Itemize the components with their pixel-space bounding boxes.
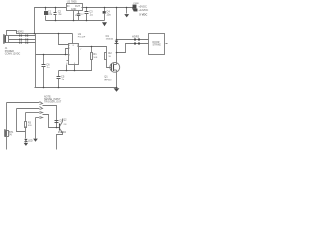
wire relay lower bbox=[117, 44, 149, 53]
wire IC bottom pin a bbox=[66, 65, 68, 71]
junction (116.5,39.5) bbox=[116, 39, 118, 41]
svg-text:5 VDC: 5 VDC bbox=[139, 12, 147, 16]
ground arrow bus end bbox=[102, 22, 107, 26]
wire battery bottom bbox=[6, 136, 8, 150]
wire filter line 1 bbox=[9, 35, 36, 37]
junction (116.5,7.5) bbox=[116, 7, 118, 9]
svg-text:2N3904: 2N3904 bbox=[58, 132, 67, 134]
wire filter line 2 bbox=[9, 39, 36, 41]
capacitor C4 bbox=[103, 8, 106, 21]
svg-text:.1u: .1u bbox=[46, 67, 50, 69]
junction (91.5,46.5) bbox=[91, 46, 93, 48]
svg-text:1: 1 bbox=[69, 45, 71, 47]
wire R1 bottom to pin bus bbox=[59, 60, 92, 71]
svg-text:IN: IN bbox=[67, 5, 70, 8]
svg-text:C7: C7 bbox=[81, 14, 85, 16]
svg-text:HDR3: HDR3 bbox=[132, 35, 140, 39]
regulator ground pin bbox=[73, 11, 75, 21]
resistor R2 bbox=[105, 53, 107, 60]
svg-text:STRIKE: STRIKE bbox=[153, 45, 162, 47]
relay box K1 bbox=[149, 34, 165, 55]
svg-text:CONN 12VDC: CONN 12VDC bbox=[5, 53, 21, 56]
junction (55.5,7.5) bbox=[55, 7, 57, 9]
wire R3 to LED bbox=[25, 127, 27, 139]
arrow glyph A3 bbox=[40, 112, 43, 114]
svg-text:GND: GND bbox=[71, 8, 77, 11]
svg-text:.1u: .1u bbox=[61, 79, 65, 81]
junction (34.5,33.5) bbox=[34, 33, 36, 35]
junction (45.5,7.5) bbox=[45, 7, 47, 9]
svg-text:.1u: .1u bbox=[89, 12, 93, 16]
IC U1 box bbox=[69, 44, 79, 65]
svg-text:2: 2 bbox=[69, 48, 71, 50]
junction (58.5,33.5) bbox=[58, 33, 60, 35]
wire W1 continuation bbox=[43, 106, 57, 128]
junction dots bbox=[34, 7, 128, 129]
wire IC top pin bbox=[72, 34, 74, 44]
wire W3 continuation right bbox=[43, 115, 60, 128]
svg-text:4: 4 bbox=[66, 63, 68, 65]
connector pins on relay wires bbox=[134, 39, 140, 45]
svg-text:Q1: Q1 bbox=[104, 75, 108, 79]
svg-text:R1: R1 bbox=[93, 52, 97, 56]
connector J2 pins row3 bbox=[19, 42, 20, 44]
svg-text:3: 3 bbox=[69, 55, 71, 57]
capacitor C7 under regulator bbox=[77, 11, 81, 21]
junction (86.5,20.5) bbox=[86, 20, 88, 22]
wire IC bottom pin b bbox=[74, 65, 76, 71]
led D2 bbox=[24, 139, 27, 142]
wire W4 to ground bbox=[35, 118, 37, 139]
junction (86.5,7.5) bbox=[86, 7, 88, 9]
wire relay upper bbox=[117, 39, 149, 41]
junction (43.5,54.5) bbox=[43, 54, 45, 56]
label IC pin numbers bbox=[66, 45, 82, 65]
battery BT1 bbox=[5, 130, 9, 137]
resistor R3 bbox=[25, 122, 27, 128]
svg-text:C6: C6 bbox=[46, 62, 50, 66]
junction (126.5,7.5) bbox=[126, 7, 128, 9]
wire left drop to battery bbox=[6, 103, 8, 131]
junction (73.5,20.5) bbox=[73, 20, 75, 22]
wire IC left stub pin3 bbox=[67, 60, 69, 62]
svg-text:1K: 1K bbox=[108, 56, 111, 58]
svg-text:HDR2: HDR2 bbox=[17, 30, 25, 34]
wire VDD branch to IC pin1 bbox=[59, 34, 69, 45]
svg-text:C5: C5 bbox=[61, 74, 65, 78]
wire emitter to ground run bbox=[57, 133, 63, 150]
svg-text:330: 330 bbox=[28, 125, 32, 127]
svg-text:10K: 10K bbox=[93, 57, 97, 59]
capacitor C3 bbox=[85, 8, 89, 21]
connector J1 bbox=[4, 35, 9, 44]
regulator U2 box bbox=[67, 4, 83, 11]
junction (55.5,20.5) bbox=[55, 20, 57, 22]
wire main drain vertical bbox=[116, 8, 118, 63]
svg-text:PIC12F: PIC12F bbox=[78, 37, 86, 39]
junction (43.5,87.5) bbox=[43, 87, 45, 89]
svg-text:IRF510: IRF510 bbox=[104, 79, 112, 81]
wire W2 left leg bbox=[25, 113, 27, 122]
svg-text:10u: 10u bbox=[48, 12, 53, 16]
wire W3 bbox=[26, 112, 40, 114]
svg-text:10u: 10u bbox=[106, 12, 111, 16]
wire W2 bbox=[17, 108, 40, 110]
wire W3 left leg bbox=[17, 109, 26, 132]
svg-text:U2 7805: U2 7805 bbox=[67, 0, 77, 4]
arrow glyph A4 bbox=[40, 117, 43, 119]
svg-text:.1u: .1u bbox=[58, 12, 62, 16]
wire IC left pin row bbox=[36, 54, 69, 56]
capacitor C2 bbox=[54, 8, 57, 21]
power flag 1 bbox=[133, 5, 136, 8]
junction (104.5,7.5) bbox=[104, 7, 106, 9]
wire ground vertical bbox=[35, 34, 37, 88]
capacitor C5 bbox=[57, 71, 61, 88]
mosfet Q1 bbox=[110, 62, 120, 73]
ground arrow LED bbox=[24, 142, 28, 146]
component on chain bbox=[55, 121, 59, 123]
arrow glyph A1 bbox=[40, 102, 43, 105]
svg-text:9V: 9V bbox=[9, 133, 12, 136]
transistor Q2 bbox=[60, 119, 63, 133]
junction (56.5,127.5) bbox=[56, 127, 58, 129]
svg-text:+12VDC: +12VDC bbox=[138, 8, 148, 12]
svg-text:R2: R2 bbox=[108, 51, 112, 55]
wire filter line 3 bbox=[9, 42, 36, 44]
svg-text:+5VDC: +5VDC bbox=[138, 4, 147, 8]
arrow glyph A2 bbox=[40, 107, 43, 110]
svg-text:TRIGGER_OUT: TRIGGER_OUT bbox=[44, 101, 62, 104]
junction (66.5,70.5) bbox=[66, 70, 68, 72]
svg-text:8: 8 bbox=[73, 45, 75, 47]
connector J2 pins row2 bbox=[19, 39, 20, 41]
wire W1 bbox=[7, 102, 40, 104]
power flag 2 bbox=[133, 8, 138, 12]
junction (116.5,87.5) bbox=[116, 87, 118, 89]
wire source to ground bbox=[116, 73, 118, 88]
wire IC right pin bbox=[79, 47, 107, 53]
svg-text:1N4004: 1N4004 bbox=[106, 39, 114, 41]
wire top ground bus bbox=[46, 20, 105, 22]
wire gate path bbox=[107, 60, 111, 68]
wire top rail left segment bbox=[35, 8, 67, 34]
svg-text:LED: LED bbox=[28, 139, 33, 142]
wire W4 bbox=[36, 117, 40, 119]
wire J1 pin1 to VDD net bbox=[7, 31, 73, 36]
svg-text:2N: 2N bbox=[64, 124, 67, 126]
ground arrow mid bbox=[114, 88, 120, 92]
wire top rail right segment bbox=[82, 7, 133, 9]
resistor R1 bbox=[91, 53, 93, 60]
ground arrow W4 bbox=[33, 139, 38, 142]
connector J2 pins row1 bbox=[19, 35, 28, 44]
ground arrow top right bbox=[124, 8, 129, 18]
junction (116.5,52.5) bbox=[116, 52, 118, 54]
resistor R1 drop bbox=[91, 47, 93, 53]
capacitor C6 on pin row bbox=[42, 55, 46, 88]
junction (74.5,70.5) bbox=[74, 70, 76, 72]
wire ground rail bbox=[35, 87, 118, 89]
svg-text:U1: U1 bbox=[78, 32, 82, 36]
svg-text:R3: R3 bbox=[28, 122, 32, 125]
svg-text:D1: D1 bbox=[106, 34, 110, 38]
wire riser to pin 48 bbox=[66, 49, 69, 55]
junction (65.5,54.5) bbox=[65, 54, 67, 56]
junction (58.5,87.5) bbox=[58, 87, 60, 89]
svg-text:7: 7 bbox=[80, 49, 82, 51]
capacitor C1 bbox=[44, 8, 48, 21]
svg-text:Q2: Q2 bbox=[63, 118, 67, 121]
diode D1 bbox=[115, 41, 119, 44]
